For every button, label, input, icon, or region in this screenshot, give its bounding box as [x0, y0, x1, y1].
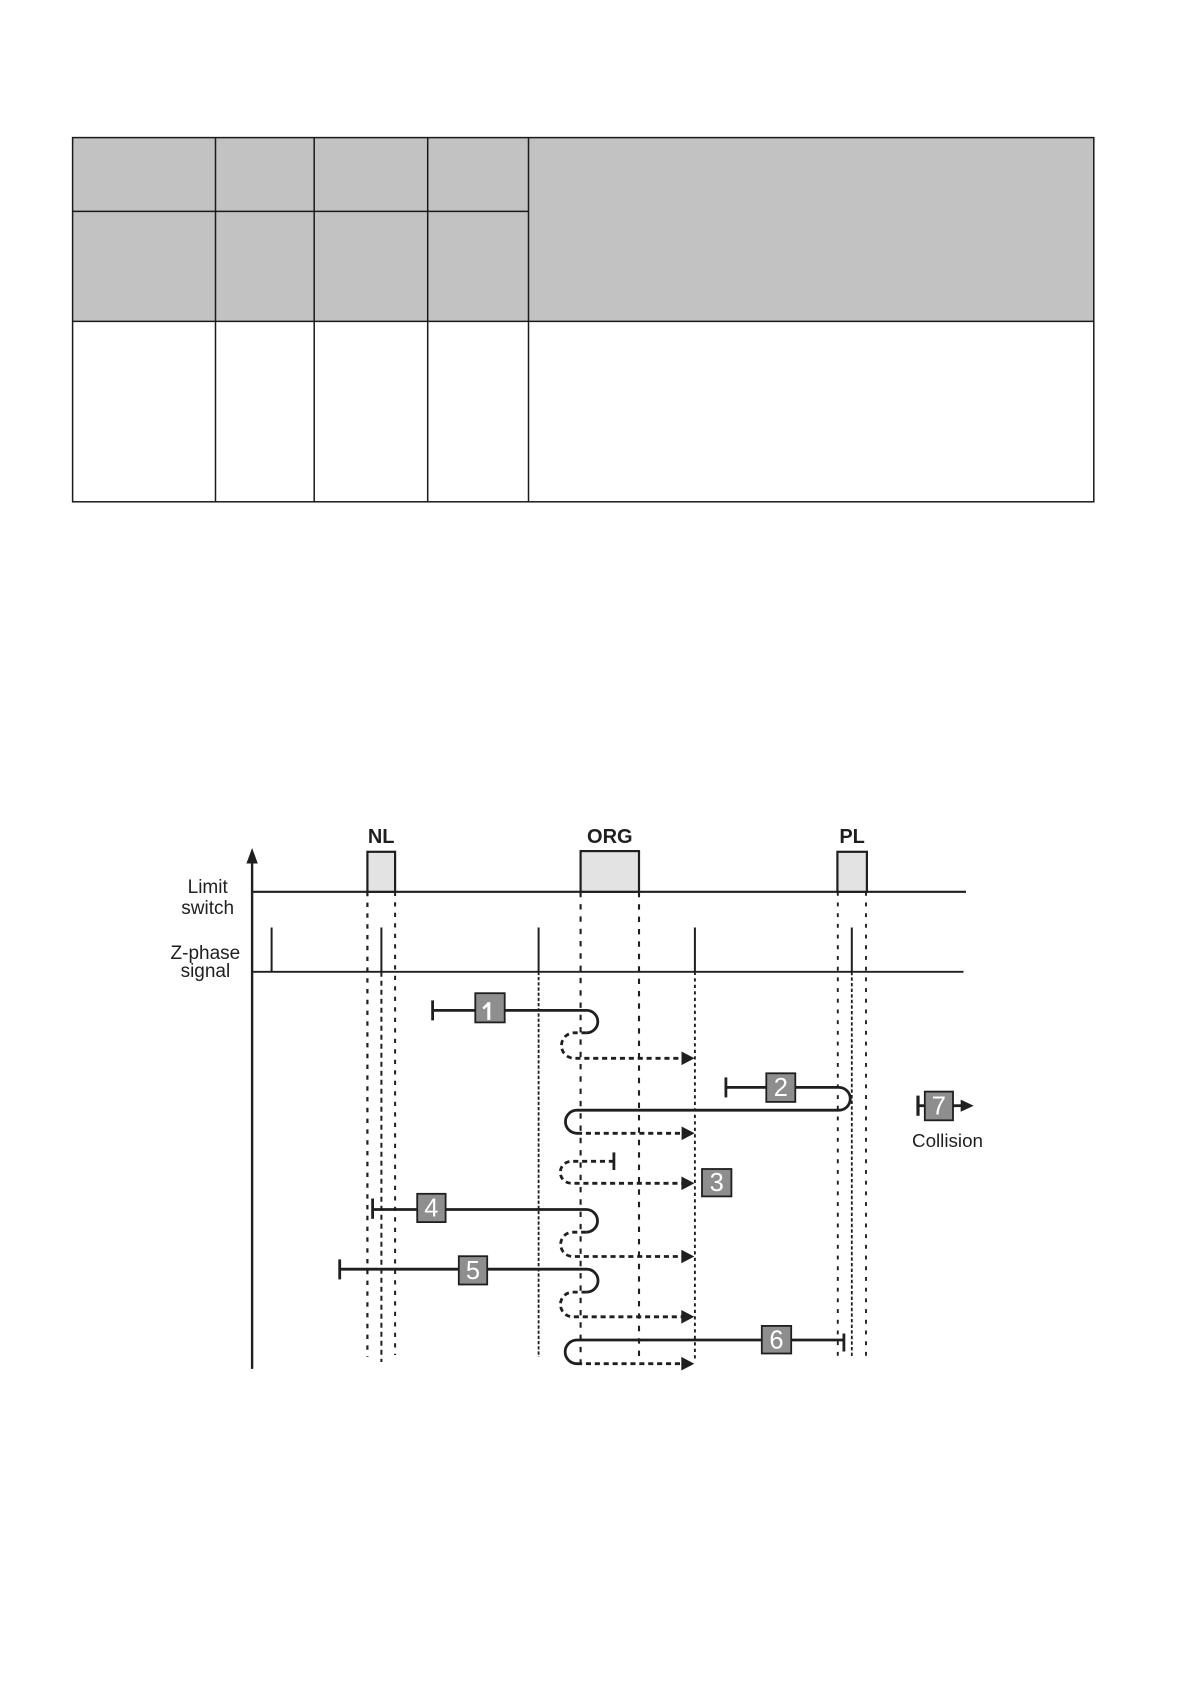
svg-text:5: 5 [466, 1257, 480, 1285]
svg-text:signal: signal [181, 961, 231, 982]
svg-text:4: 4 [424, 1195, 438, 1223]
svg-text:Collision: Collision [912, 1130, 983, 1151]
svg-text:Limit: Limit [188, 877, 229, 898]
svg-text:3: 3 [710, 1169, 724, 1197]
svg-text:switch: switch [181, 898, 234, 919]
svg-text:7: 7 [932, 1093, 946, 1121]
svg-text:6: 6 [769, 1326, 783, 1354]
svg-text:PL: PL [839, 826, 865, 848]
svg-text:NL: NL [368, 826, 395, 848]
svg-text:2: 2 [774, 1074, 788, 1102]
svg-text:ORG: ORG [587, 826, 633, 848]
